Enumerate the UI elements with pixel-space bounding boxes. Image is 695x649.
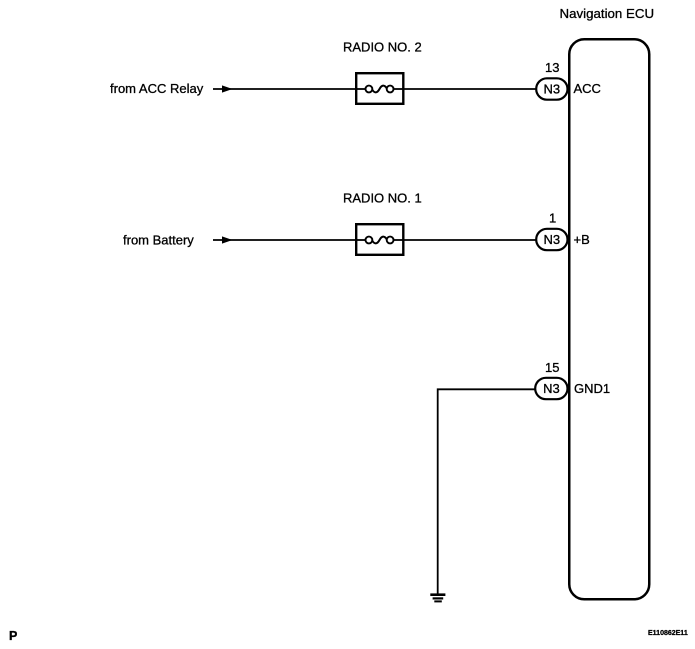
svg-text:RADIO NO. 2: RADIO NO. 2	[343, 40, 422, 55]
svg-text:GND1: GND1	[574, 381, 610, 396]
connector N3 pin 1	[536, 229, 567, 250]
arrow on ACC wire	[222, 85, 233, 92]
wire from ground to pin 15	[438, 389, 535, 594]
svg-text:1: 1	[549, 211, 556, 226]
svg-text:from Battery: from Battery	[123, 233, 194, 248]
svg-text:Navigation ECU: Navigation ECU	[560, 6, 655, 21]
svg-text:13: 13	[545, 60, 559, 75]
fuse RADIO NO. 2	[356, 73, 403, 104]
svg-text:ACC: ACC	[574, 81, 601, 96]
svg-text:N3: N3	[543, 232, 560, 247]
wire from Battery to pin 1	[213, 239, 536, 241]
svg-text:15: 15	[545, 360, 559, 375]
svg-text:N3: N3	[543, 381, 560, 396]
svg-text:E110862E11: E110862E11	[648, 630, 688, 637]
svg-text:+B: +B	[574, 232, 590, 247]
svg-text:P: P	[9, 629, 17, 643]
wire from ACC Relay to pin 13	[213, 88, 536, 90]
connector N3 pin 15	[535, 378, 567, 399]
Navigation ECU box	[569, 39, 649, 599]
ground	[430, 595, 445, 602]
svg-text:N3: N3	[543, 82, 560, 97]
arrow on battery wire	[222, 236, 233, 243]
svg-text:from ACC Relay: from ACC Relay	[110, 81, 204, 96]
connector N3 pin 13	[536, 78, 567, 99]
svg-text:RADIO NO. 1: RADIO NO. 1	[343, 191, 422, 206]
fuse RADIO NO. 1	[356, 224, 403, 255]
